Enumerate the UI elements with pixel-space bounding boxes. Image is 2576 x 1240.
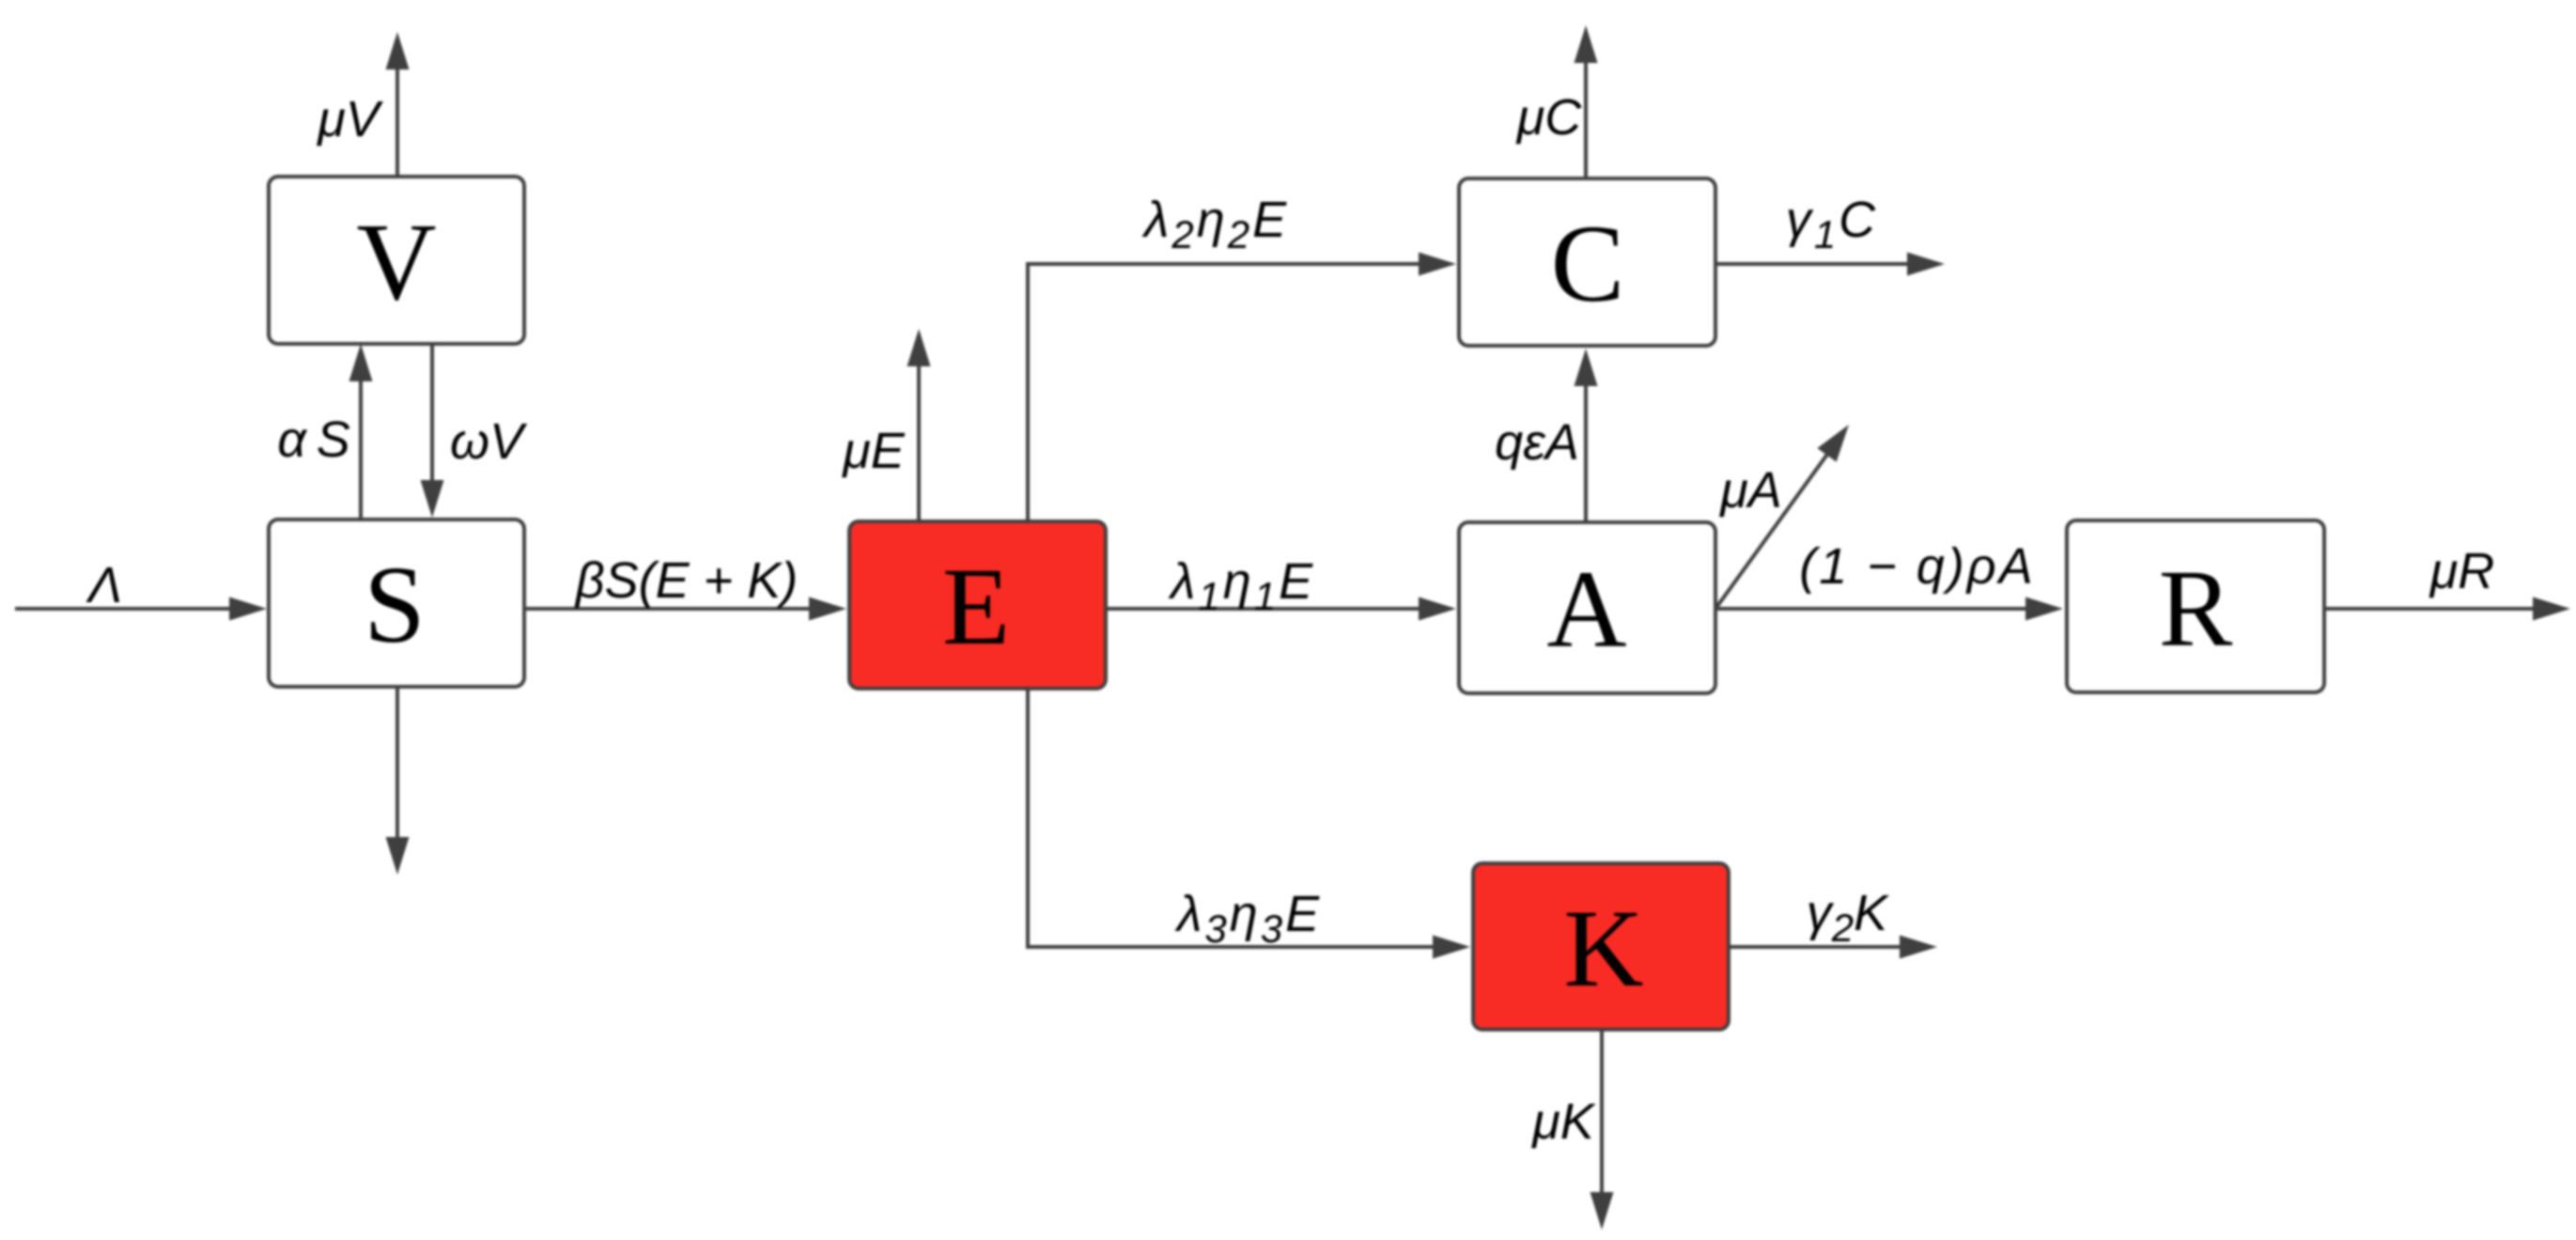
arrow E to A (lambda1 eta1 E) bbox=[1106, 607, 1434, 611]
svg-text:A: A bbox=[1546, 548, 1626, 671]
arrow S to E (beta S(E+K)) bbox=[524, 607, 824, 611]
svg-text:V: V bbox=[356, 200, 436, 323]
arrow E to K (lambda3 eta3 E) bbox=[1028, 689, 1448, 947]
arrow mu A diagonal outflow from A bbox=[1715, 442, 1836, 609]
arrow mu S outflow down from S bbox=[396, 687, 399, 852]
arrow gamma1 C outflow right from C bbox=[1715, 262, 1922, 266]
arrow mu V outflow up from V bbox=[396, 54, 399, 177]
arrow mu R outflow right from R bbox=[2324, 607, 2548, 611]
svg-text:μC: μC bbox=[1515, 89, 1583, 146]
svg-text:Λ: Λ bbox=[85, 557, 122, 613]
box K (red) bbox=[1473, 863, 1729, 1030]
arrow gamma2 K outflow right from K bbox=[1729, 945, 1915, 949]
svg-text:E: E bbox=[942, 545, 1010, 668]
svg-text:μE: μE bbox=[841, 423, 906, 479]
box R bbox=[2067, 520, 2324, 692]
box S bbox=[269, 519, 524, 687]
svg-text:R: R bbox=[2159, 547, 2233, 670]
svg-text:S: S bbox=[364, 543, 426, 666]
svg-text:ωV: ωV bbox=[450, 413, 528, 470]
svg-text:βS(E + K): βS(E + K) bbox=[574, 552, 798, 609]
arrow A to R ((1-q) rho A) bbox=[1715, 607, 2041, 611]
arrow S to V (alpha S) bbox=[359, 366, 363, 519]
svg-text:λ3​η3​E: λ3​η3​E bbox=[1174, 886, 1322, 951]
box E (red) bbox=[849, 521, 1106, 689]
svg-text:μR: μR bbox=[2429, 543, 2495, 599]
arrow mu E outflow up from E bbox=[917, 351, 921, 521]
svg-text:μA: μA bbox=[1718, 462, 1782, 519]
svg-text:μK: μK bbox=[1530, 1093, 1596, 1150]
arrow E to C (lambda2 eta2 E) bbox=[1028, 264, 1434, 521]
svg-text:(1 − q)ρA: (1 − q)ρA bbox=[1799, 538, 2036, 595]
box A bbox=[1459, 522, 1715, 693]
svg-text:α S: α S bbox=[277, 411, 350, 468]
svg-text:λ2​η2​E: λ2​η2​E bbox=[1141, 192, 1289, 256]
svg-text:qεA: qεA bbox=[1495, 414, 1579, 471]
svg-text:C: C bbox=[1551, 202, 1625, 325]
arrow mu C outflow up from C bbox=[1584, 48, 1588, 178]
arrow Lambda inflow into S bbox=[15, 607, 244, 611]
arrow V to S (omega V) bbox=[430, 344, 434, 495]
svg-text:μV: μV bbox=[316, 91, 384, 147]
box V bbox=[269, 177, 524, 344]
arrow A to C (q eps A) bbox=[1584, 371, 1588, 521]
arrow mu K outflow down from K bbox=[1600, 1031, 1604, 1207]
box C bbox=[1459, 178, 1715, 346]
svg-text:K: K bbox=[1563, 887, 1643, 1010]
svg-text:λ1​η1​E: λ1​η1​E bbox=[1168, 553, 1315, 618]
